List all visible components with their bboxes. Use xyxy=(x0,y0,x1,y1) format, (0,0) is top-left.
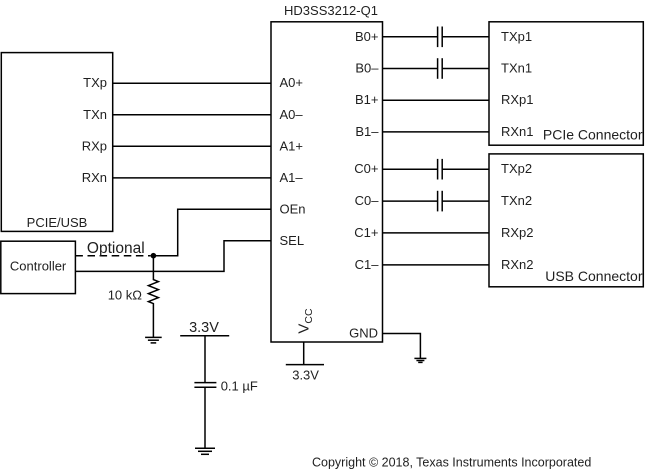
wire capacitor C4 to TXp2 xyxy=(442,168,489,170)
capacitor C3 (series, B0-) xyxy=(438,58,443,79)
node OEn junction xyxy=(151,253,157,259)
svg-text:C0–: C0– xyxy=(355,193,380,208)
wire capacitor C2 to TXp1 xyxy=(442,36,489,38)
wire OEn to node xyxy=(156,209,271,255)
wire capacitor C1 to ground xyxy=(204,387,206,448)
svg-text:PCIe Connector: PCIe Connector xyxy=(543,127,643,143)
svg-text:RXn2: RXn2 xyxy=(501,257,534,272)
wire 3.3V rail to capacitor C1 xyxy=(204,336,206,383)
block PCIE/USB xyxy=(1,53,112,232)
capacitor C5 (series, C0-) xyxy=(438,191,443,212)
svg-text:B0+: B0+ xyxy=(355,29,379,44)
capacitor C2 (series, B0+) xyxy=(438,27,443,48)
wire GND pin to ground xyxy=(383,334,421,359)
svg-text:TXp: TXp xyxy=(83,75,107,90)
svg-text:A0–: A0– xyxy=(280,107,304,122)
svg-text:A1+: A1+ xyxy=(280,138,304,153)
wire B0+ to capacitor C2 xyxy=(383,36,438,38)
wire C0- to capacitor C5 xyxy=(383,200,438,202)
svg-text:RXp2: RXp2 xyxy=(501,225,534,240)
block Controller xyxy=(1,241,76,293)
svg-text:Controller: Controller xyxy=(10,258,67,273)
svg-text:HD3SS3212-Q1: HD3SS3212-Q1 xyxy=(284,3,378,18)
svg-text:GND: GND xyxy=(349,326,378,341)
svg-text:RXp1: RXp1 xyxy=(501,92,534,107)
svg-text:TXn1: TXn1 xyxy=(501,61,532,76)
svg-text:B1+: B1+ xyxy=(355,92,379,107)
svg-text:Optional: Optional xyxy=(87,240,145,257)
svg-text:TXp2: TXp2 xyxy=(501,161,532,176)
svg-text:0.1 µF: 0.1 µF xyxy=(221,378,258,393)
capacitor C1 0.1 uF xyxy=(194,383,216,388)
capacitor C4 (series, C0+) xyxy=(438,159,443,180)
IC U1 HD3SS3212-Q1 body xyxy=(271,22,383,342)
svg-text:PCIE/USB: PCIE/USB xyxy=(27,215,88,230)
wire SEL to Controller xyxy=(75,241,271,272)
wire capacitor C5 to TXn2 xyxy=(442,200,489,202)
wire B1- to RXn1 xyxy=(383,131,490,133)
svg-text:TXn2: TXn2 xyxy=(501,193,532,208)
wire optional dashed Controller to node xyxy=(75,255,150,257)
wire RXn to A1- xyxy=(113,177,271,179)
svg-text:C0+: C0+ xyxy=(354,161,378,176)
ground symbol at C1 xyxy=(195,448,215,454)
svg-text:3.3V: 3.3V xyxy=(292,368,319,383)
block PCIe Connector xyxy=(489,22,643,145)
wire Vcc pin stub xyxy=(303,342,305,365)
wire C1+ to RXp2 xyxy=(383,232,490,234)
svg-text:RXp: RXp xyxy=(82,138,107,153)
svg-text:10 kΩ: 10 kΩ xyxy=(108,288,143,303)
wire C1- to RXn2 xyxy=(383,264,490,266)
svg-text:B1–: B1– xyxy=(355,124,379,139)
svg-text:A1–: A1– xyxy=(280,170,304,185)
wire B0- to capacitor C3 xyxy=(383,68,438,70)
svg-text:TXp1: TXp1 xyxy=(501,29,532,44)
supply rail 3.3V (decoupling branch) xyxy=(180,335,229,337)
svg-text:OEn: OEn xyxy=(280,201,306,216)
svg-text:TXn: TXn xyxy=(83,107,107,122)
resistor R1 10 kOhm xyxy=(148,256,158,338)
svg-text:C1–: C1– xyxy=(355,257,380,272)
supply bar 3.3V (Vcc) xyxy=(286,364,324,366)
svg-text:Copyright © 2018, Texas Instru: Copyright © 2018, Texas Instruments Inco… xyxy=(312,456,591,470)
svg-text:3.3V: 3.3V xyxy=(189,320,219,336)
wire capacitor C3 to TXn1 xyxy=(442,68,489,70)
svg-text:USB Connector: USB Connector xyxy=(545,268,643,284)
svg-text:RXn1: RXn1 xyxy=(501,124,534,139)
svg-text:RXn: RXn xyxy=(82,170,107,185)
ground symbol at R1 xyxy=(145,337,162,343)
wire TXp to A0+ xyxy=(113,82,271,84)
wire C0+ to capacitor C4 xyxy=(383,168,438,170)
svg-text:SEL: SEL xyxy=(280,233,305,248)
block USB Connector xyxy=(489,154,643,287)
svg-text:C1+: C1+ xyxy=(354,225,378,240)
svg-text:A0+: A0+ xyxy=(280,75,304,90)
wire B1+ to RXp1 xyxy=(383,99,490,101)
wire TXn to A0- xyxy=(113,114,271,116)
svg-text:B0–: B0– xyxy=(355,61,379,76)
wire RXp to A1+ xyxy=(113,145,271,147)
ground symbol at GND pin xyxy=(414,358,426,362)
